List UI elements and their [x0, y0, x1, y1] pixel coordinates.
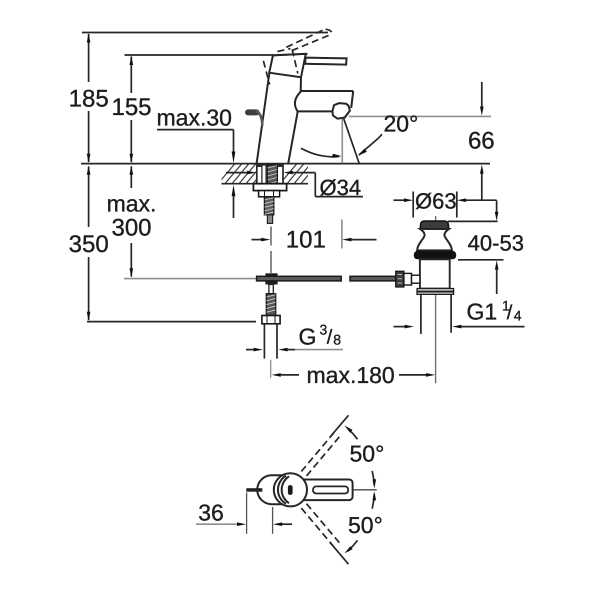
deck bottom line [222, 183, 309, 185]
spout body fillet arc [295, 92, 301, 112]
dimension 101 [252, 227, 377, 254]
waste centerline [435, 216, 437, 383]
svg-text:G: G [299, 324, 317, 350]
aerator outlet [332, 103, 350, 119]
mounting washer [253, 184, 286, 191]
threaded shank in deck hole [267, 165, 277, 184]
svg-text:4: 4 [514, 307, 522, 323]
top view center mark [288, 485, 293, 495]
dimension max.30 lower arrow [232, 185, 236, 218]
threaded adapter [266, 294, 275, 316]
svg-text:/: / [327, 327, 333, 349]
faucet body left edge [257, 74, 270, 164]
top view lever [300, 480, 353, 501]
dimension Ø34 [226, 171, 363, 200]
waste tailpipe walls [421, 295, 451, 335]
svg-text:8: 8 [333, 331, 341, 347]
handle lever [305, 58, 346, 65]
pop-up linkage cross fitting [265, 273, 277, 284]
linkage knob on waste [396, 271, 420, 287]
dimension 40-53 [468, 200, 524, 294]
faucet cartridge (handle base) [269, 54, 307, 77]
dimension G3/8 arrows [246, 348, 343, 352]
svg-text:max.: max. [107, 191, 157, 217]
deck hatch left block [216, 160, 273, 186]
top view inner arcs [278, 476, 289, 504]
deck hole left wall [256, 164, 258, 184]
dashed lever raised 50 up [301, 429, 342, 476]
20 degree arc with arrow [301, 148, 342, 158]
deck top surface line [81, 163, 490, 165]
top view knob stub [246, 488, 262, 492]
supply pipe centerline [270, 360, 272, 378]
supply connection nut [262, 316, 280, 324]
rod below cross [269, 285, 273, 294]
extension ray lower [330, 542, 349, 564]
svg-text:/: / [507, 302, 513, 324]
svg-text:66: 66 [468, 128, 495, 155]
dimension 350 [69, 166, 109, 322]
svg-text:40-53: 40-53 [468, 231, 524, 256]
label G1 1/4 [467, 298, 522, 325]
faucet centerline dashes [270, 227, 272, 274]
rod tip [267, 215, 272, 224]
top view spout (stadium) [257, 475, 288, 504]
extension line top for 185 [82, 32, 328, 34]
dimension G1 1/4 arrows [394, 325, 525, 329]
waste body cylinder [420, 259, 450, 288]
faucet body right edge upper [300, 77, 302, 92]
top view lever slot [313, 486, 348, 493]
extension line top for 40-53 [448, 220, 498, 222]
faucet body right edge lower [288, 112, 298, 164]
pop-up rod knob on body [245, 109, 262, 125]
svg-text:300: 300 [111, 215, 151, 242]
extension line bottom for 40-53 (gasket underside) [458, 259, 504, 261]
dimension 185 [69, 33, 109, 163]
dimension 36 [196, 493, 292, 534]
dimension max.180 [272, 362, 436, 388]
svg-text:G1: G1 [467, 299, 498, 325]
svg-text:185: 185 [69, 85, 109, 112]
label G3/8 [299, 322, 342, 350]
spout right edge [351, 91, 353, 108]
base dark band in deck hole [257, 164, 283, 167]
upper 50 degree arc [344, 426, 376, 489]
label 50 degrees lower [348, 512, 383, 538]
waste lower flange rings [417, 289, 453, 295]
waste plug cap [420, 221, 449, 229]
svg-text:Ø63: Ø63 [415, 188, 457, 213]
vertical plumb reference line (gray) [341, 119, 343, 163]
svg-text:50°: 50° [348, 512, 383, 538]
dimension 66 [468, 82, 495, 200]
supply pipe walls [264, 324, 277, 359]
threaded rod below nut [264, 197, 273, 215]
spout reach extension line (gray) [341, 220, 343, 249]
water stream line [344, 119, 360, 164]
extension line bottom for 350 [87, 321, 256, 323]
svg-text:max.180: max.180 [307, 362, 395, 388]
dimension Ø63 [394, 188, 497, 217]
linkage rod segment A [257, 276, 342, 281]
svg-text:350: 350 [69, 231, 109, 258]
dimension max.30 label and leader [157, 105, 236, 164]
spout underside [298, 110, 333, 112]
svg-text:101: 101 [286, 227, 326, 254]
dimension max.300 [107, 166, 157, 278]
linkage rod segment B [350, 276, 396, 281]
rubber gasket [414, 251, 456, 259]
deck hole right wall [282, 164, 284, 184]
dimension 155 [111, 56, 151, 163]
svg-text:155: 155 [111, 94, 151, 121]
aerator height extension line (gray) [349, 115, 491, 117]
20 degree leader with arrow [358, 134, 382, 156]
top view body circle [274, 473, 307, 506]
extension ray upper [330, 415, 349, 437]
waste upper funnel body [417, 229, 452, 250]
pop-up rod in deck hole [262, 165, 266, 184]
extension line bottom for max.300 (gray rod line) [124, 278, 266, 280]
lower 50 degree arc [345, 491, 377, 553]
rotated cartridge dashed outline [263, 49, 297, 85]
svg-text:50°: 50° [350, 441, 385, 467]
svg-text:36: 36 [198, 500, 224, 526]
label 50 degrees upper [350, 441, 385, 467]
raised handle dashed outline [286, 29, 332, 51]
svg-text:Ø34: Ø34 [320, 175, 362, 200]
mounting nut [259, 191, 280, 197]
lever axis centerline [353, 489, 377, 491]
spout top edge [301, 90, 354, 92]
label 20 degrees [384, 111, 419, 137]
svg-text:20°: 20° [384, 111, 419, 137]
dashed lever lowered 50 down [301, 504, 342, 551]
svg-text:max.30: max.30 [157, 105, 232, 131]
deck hatch right block [278, 160, 321, 186]
extension line top for 155 [125, 54, 274, 56]
